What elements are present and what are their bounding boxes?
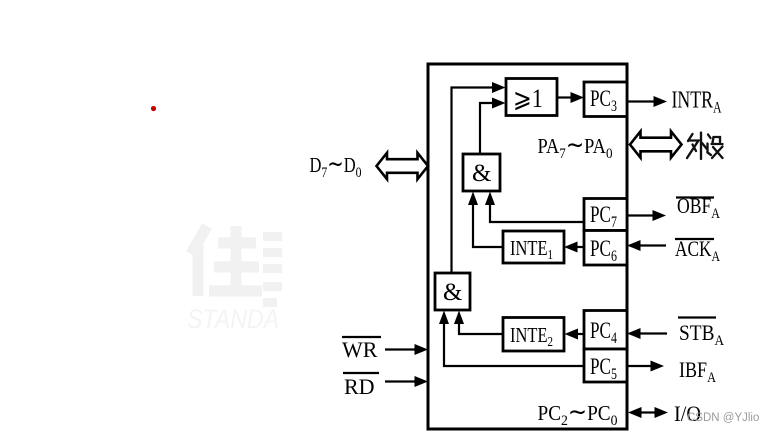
watermark partial glyph — [263, 232, 282, 307]
red dot — [151, 106, 156, 111]
register PC4 box — [584, 311, 627, 350]
svg-text:PC2∼PC0: PC2∼PC0 — [538, 399, 618, 429]
arrowhead into INTE1 — [564, 242, 578, 253]
wire STBA into PC4 — [638, 332, 667, 334]
arrowhead into INTE2 — [565, 329, 579, 340]
arrowhead into OR gate input 1 — [492, 82, 506, 93]
arrowhead WR — [415, 344, 429, 355]
bus arrow I/O (double headed) — [638, 411, 658, 413]
arrowhead AND1 left input — [468, 192, 478, 206]
wire from AND1 output up to OR gate input 2 — [480, 103, 496, 154]
bus arrow D7~D0 (outline double arrow) — [377, 153, 429, 179]
svg-text:PA7∼PA0: PA7∼PA0 — [538, 132, 613, 162]
wire PC5 to AND2 left input — [444, 320, 584, 366]
arrowhead AND2 right input — [454, 311, 464, 325]
overline ACKA — [675, 238, 714, 240]
wire PC4 to INTE2 — [576, 333, 584, 335]
register PC5 box — [584, 349, 627, 382]
wire ACKA into PC6 — [638, 244, 666, 246]
wire PC6 to INTE1 — [575, 246, 584, 248]
svg-text:STANDA: STANDA — [187, 304, 279, 334]
svg-text:INTE2: INTE2 — [510, 323, 553, 350]
arrowhead into PC6 — [627, 240, 641, 251]
arrowhead AND1 right input — [485, 192, 495, 206]
svg-text:&: & — [443, 279, 462, 306]
register PC7 box — [584, 199, 627, 231]
arrowhead into PC4 — [627, 328, 641, 339]
overline RD — [343, 372, 379, 374]
arrowhead I/O right — [655, 407, 669, 418]
wire from AND2 output up to OR gate input 1 — [452, 88, 497, 274]
overline WR — [342, 336, 381, 338]
wire PC5 to IBFA — [627, 365, 652, 367]
wire PC7 to AND1 right input — [490, 201, 584, 222]
wire OR gate output to PC3 — [557, 96, 572, 98]
wire INTE1 to AND1 left input — [473, 201, 503, 247]
arrowhead I/O left — [628, 407, 642, 418]
svg-text:INTRA: INTRA — [672, 88, 722, 117]
and-gate A1 box — [463, 154, 500, 191]
arrowhead RD — [415, 376, 429, 387]
svg-text:ACKA: ACKA — [675, 236, 720, 265]
svg-text:&: & — [472, 160, 491, 187]
svg-text:WR: WR — [342, 337, 378, 362]
arrowhead INTRA — [654, 96, 668, 107]
or-gate GE1 box — [506, 79, 557, 116]
svg-text:IBFA: IBFA — [679, 357, 716, 386]
wire PC3 to INTRA — [627, 100, 655, 102]
svg-text:⩾1: ⩾1 — [513, 84, 543, 113]
overline OBFA — [676, 196, 714, 198]
arrowhead OBFA — [653, 210, 667, 221]
overline STBA — [678, 316, 716, 318]
bus arrow PA to peripheral (outline double arrow) — [630, 131, 682, 157]
svg-text:D7∼D0: D7∼D0 — [310, 151, 362, 181]
arrowhead into PC3 — [571, 92, 585, 103]
latch INTE2 box — [503, 318, 564, 352]
arrowhead into OR gate input 2 — [492, 98, 506, 109]
wire WR into block — [385, 348, 416, 350]
watermark 佳 (faint) — [191, 226, 262, 296]
svg-text:STBA: STBA — [679, 320, 724, 349]
wire RD into block — [385, 380, 416, 382]
label 外设 (drawn strokes) — [687, 133, 723, 160]
register PC3 box — [584, 82, 627, 117]
wire PC7 to OBFA — [627, 214, 654, 216]
svg-text:INTE1: INTE1 — [510, 236, 553, 263]
arrowhead AND2 left input — [439, 311, 449, 325]
svg-text:RD: RD — [344, 374, 375, 399]
8255 block outline — [428, 64, 627, 429]
register PC6 box — [584, 231, 627, 266]
wire INTE2 to AND2 right input — [459, 320, 503, 334]
latch INTE1 box — [503, 231, 564, 263]
svg-text:CSDN @YJlio: CSDN @YJlio — [687, 412, 759, 424]
and-gate A2 box — [435, 273, 470, 310]
arrowhead IBFA — [651, 361, 665, 372]
